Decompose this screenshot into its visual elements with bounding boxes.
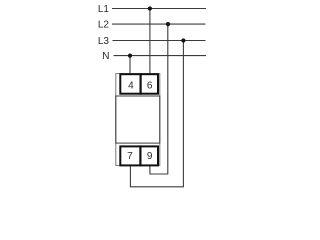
junction dot L3	[181, 38, 185, 42]
wire terminal 9 to L2	[150, 24, 168, 174]
wire L3 bus	[113, 40, 206, 42]
wire L1 drop to terminal 6	[149, 9, 151, 74]
wire terminal 7 to L3	[130, 41, 183, 187]
svg-text:L3: L3	[98, 36, 110, 47]
svg-text:6: 6	[147, 81, 153, 92]
module U1 body outline	[116, 74, 160, 166]
svg-text:9: 9	[147, 151, 153, 162]
svg-text:L2: L2	[98, 20, 110, 31]
svg-text:7: 7	[127, 151, 133, 162]
junction dot L2	[166, 22, 170, 26]
wire N bus	[114, 55, 207, 57]
wire L1 bus	[112, 8, 206, 10]
junction dot L1	[148, 6, 152, 10]
wire N drop to terminal 4	[129, 56, 131, 74]
svg-text:L1: L1	[98, 4, 110, 15]
module U1 inner body section	[116, 96, 160, 143]
svg-text:4: 4	[128, 81, 134, 92]
svg-text:N: N	[102, 51, 109, 62]
terminal block top (4,6)	[120, 73, 158, 95]
junction dot N	[128, 54, 132, 58]
terminal block bottom (7,9)	[120, 145, 158, 166]
wire L2 bus	[112, 23, 206, 25]
